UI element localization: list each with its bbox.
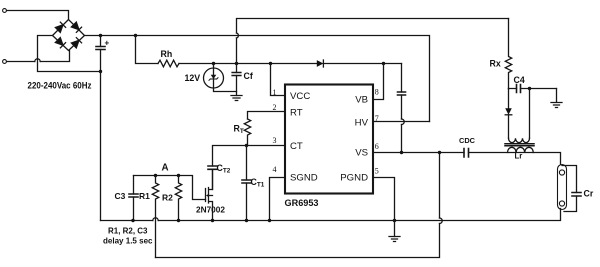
capacitor bulk electrolytic: [100, 36, 102, 72]
capacitor C3: [133, 176, 135, 221]
capacitor C4: [509, 88, 557, 90]
svg-text:R1: R1: [139, 191, 150, 201]
resistor R1: [152, 176, 158, 258]
svg-text:VCC: VCC: [290, 91, 310, 102]
svg-text:R2: R2: [162, 193, 173, 203]
node dot R2 top: [177, 174, 180, 177]
svg-text:2N7002: 2N7002: [196, 205, 225, 215]
inductor Lr secondary winding: [508, 147, 534, 152]
bridge diode D-br: [71, 38, 81, 48]
bridge diode D-tr: [71, 22, 81, 32]
lamp tube: [558, 165, 567, 210]
svg-text:CT: CT: [290, 141, 303, 152]
wire pin 7 HV stub: [373, 121, 430, 123]
node dot Q1 source: [211, 219, 214, 222]
wire hop bus1 over R1: [153, 218, 158, 221]
svg-text:VS: VS: [355, 148, 368, 159]
wire Cr loop: [562, 166, 577, 212]
wire bottom terminal to bridge bottom (hop over vertical): [7, 51, 70, 62]
svg-text:Rh: Rh: [161, 49, 173, 59]
capacitor CT1: [246, 146, 248, 221]
ground PGND: [389, 237, 400, 242]
node dot SGND: [268, 219, 271, 222]
svg-text:C3: C3: [115, 191, 126, 201]
resistor R2: [175, 176, 181, 221]
node dot bus2 to VS: [438, 151, 441, 154]
wire pin 2 RT stub: [248, 112, 286, 120]
svg-text:delay 1.5 sec: delay 1.5 sec: [103, 235, 153, 245]
terminal top-left: [3, 9, 7, 13]
svg-text:8: 8: [375, 87, 379, 96]
wire pin 4 SGND stub: [270, 178, 286, 221]
svg-text:Lr: Lr: [515, 152, 523, 161]
node dot CT1 bottom: [245, 219, 248, 222]
svg-text:R1, R2, C3: R1, R2, C3: [108, 225, 148, 235]
wire hop at (236.5,35): [237, 33, 239, 38]
svg-text:2: 2: [273, 103, 277, 112]
svg-text:6: 6: [375, 142, 379, 151]
svg-text:Rx: Rx: [490, 59, 501, 69]
capacitor CT2: [212, 169, 214, 189]
svg-text:GR6953: GR6953: [285, 198, 319, 208]
svg-text:SGND: SGND: [290, 173, 318, 184]
svg-text:A: A: [162, 163, 169, 174]
svg-text:220-240Vac 60Hz: 220-240Vac 60Hz: [28, 81, 93, 91]
svg-text:12V: 12V: [185, 73, 201, 83]
inductor Lr core: [505, 144, 534, 146]
ground C4: [551, 89, 562, 108]
wire signal ground bus1: [101, 209, 561, 221]
wire bridge left vertex to DC- bus: [38, 36, 101, 72]
diode D2: [508, 89, 510, 109]
wire VCC rail continuing right: [179, 63, 402, 65]
ground Cf: [231, 96, 242, 101]
capacitor CB bootstrap: [401, 64, 403, 153]
transistor Q1 2N7002: [206, 169, 213, 220]
wire top terminal to bridge top: [7, 11, 69, 20]
node dot cap top: [99, 34, 102, 37]
node dot 12V top: [212, 62, 215, 65]
svg-text:1: 1: [273, 88, 277, 97]
wire hop bus2 riser over bus1: [440, 218, 443, 224]
terminal bottom-left: [3, 60, 7, 64]
diode D1 on VCC rail: [317, 60, 324, 67]
wire pin 3 CT line: [213, 146, 286, 167]
bridge diode D-tl: [55, 22, 65, 32]
wire pin 5 PGND stub down: [373, 178, 395, 237]
resistor RT: [244, 119, 250, 146]
wire pin 6 VS line: [373, 153, 561, 165]
diode bridge diamond: [53, 20, 85, 51]
IC U1 GR6953 box: [285, 85, 373, 194]
node dot Rh branch: [134, 34, 137, 37]
node dot VCC pin branch: [269, 62, 272, 65]
wire bridge right vertex along top bus to HV corner: [85, 36, 430, 122]
svg-text:Cr: Cr: [584, 189, 594, 199]
svg-text:5: 5: [375, 166, 379, 175]
svg-text:4: 4: [273, 165, 277, 174]
node dot RT bottom on CT line: [245, 144, 248, 147]
svg-text:RT: RT: [290, 108, 303, 119]
zener 12V symbol: [211, 75, 217, 79]
capacitor Cf: [236, 64, 238, 96]
node A bus: [134, 176, 206, 200]
zener 12V wire: [214, 64, 237, 92]
node dot VB branch: [382, 62, 385, 65]
zener 12V circle: [204, 68, 224, 88]
svg-text:HV: HV: [355, 118, 369, 129]
node dot R2 bottom: [177, 219, 180, 222]
svg-text:+: +: [105, 39, 110, 48]
inductor Lr primary winding: [529, 89, 531, 139]
node dot PGND: [393, 219, 396, 222]
svg-text:PGND: PGND: [340, 173, 368, 184]
wire DC- long vertical down to signal bus: [100, 72, 102, 221]
lamp filament bottom: [559, 201, 564, 206]
wire VCC pin 1 branch: [271, 64, 286, 96]
lamp filament top: [559, 170, 564, 175]
capacitor CDC: [464, 149, 469, 158]
capacitor Cr: [572, 193, 581, 197]
resistor Rx: [505, 19, 511, 90]
node dot Cf top: [235, 62, 238, 65]
svg-text:Cf: Cf: [244, 71, 253, 81]
wire hop at (401.5,122): [402, 119, 405, 125]
wire VB pin 8 branch: [373, 64, 384, 100]
node dot R1 top: [154, 174, 157, 177]
node dot CB to VS: [400, 151, 403, 154]
wire bus2 delay net: [156, 153, 440, 258]
resistor Rh: [158, 60, 179, 67]
node dot C3 bottom: [131, 219, 134, 222]
wire Cf riser to top aux bus (hop over HV bus): [237, 19, 509, 64]
wire hop at (37.5,61.5): [35, 59, 40, 62]
node dot C4 right: [528, 87, 531, 90]
svg-text:7: 7: [375, 114, 379, 123]
svg-text:CDC: CDC: [459, 136, 476, 145]
node dot cap bottom: [99, 70, 102, 73]
wire Rh branch down and VCC rail: [136, 36, 159, 64]
svg-text:3: 3: [273, 136, 277, 145]
svg-text:VB: VB: [355, 95, 368, 106]
svg-text:C4: C4: [514, 75, 525, 85]
bridge diode D-bl: [55, 37, 65, 47]
